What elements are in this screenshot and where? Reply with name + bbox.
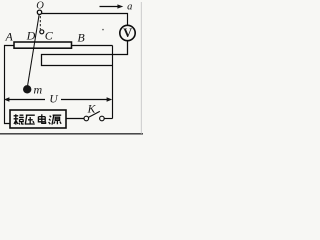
power supply label 源: [49, 115, 62, 124]
switch wire from box: [66, 118, 84, 120]
svg-text:K: K: [87, 104, 97, 116]
rod AB: [14, 42, 72, 48]
power supply label 压: [25, 115, 35, 124]
U arrow right head: [107, 97, 113, 101]
power supply label 稳: [14, 114, 24, 124]
speck: [102, 29, 104, 31]
svg-text:D: D: [26, 29, 36, 43]
switch lever: [88, 111, 99, 117]
mass m ball: [23, 85, 31, 93]
bottom border line: [0, 133, 143, 135]
wire: A end to power supply: [5, 46, 15, 124]
U arrow left line: [9, 99, 45, 101]
voltmeter V: [120, 25, 135, 40]
arrow a: [100, 6, 118, 8]
switch wire to right rail: [104, 118, 112, 120]
dashed plumb line: [39, 16, 41, 30]
switch terminal 1: [84, 116, 89, 121]
contact ring: [40, 30, 44, 34]
right border line: [140, 2, 142, 134]
svg-text:B: B: [77, 31, 85, 45]
power supply label 电: [38, 114, 45, 123]
svg-text:a: a: [127, 2, 132, 13]
U arrow right line: [61, 99, 107, 101]
svg-text:V: V: [123, 26, 132, 40]
pendulum thread: [28, 14, 40, 85]
switch terminal 2: [100, 116, 105, 121]
wire: B end to right rail: [72, 45, 113, 47]
svg-text:A: A: [5, 30, 14, 44]
power supply box: [10, 110, 66, 128]
U arrow left head: [4, 97, 9, 101]
pivot ring O: [37, 10, 41, 14]
wire: pivot to voltmeter top: [42, 14, 128, 26]
right rail wire: [112, 46, 114, 119]
wire: voltmeter to contact loop: [42, 41, 128, 66]
svg-text:U: U: [49, 93, 58, 105]
svg-text:m: m: [33, 83, 42, 97]
svg-text:C: C: [45, 29, 54, 43]
